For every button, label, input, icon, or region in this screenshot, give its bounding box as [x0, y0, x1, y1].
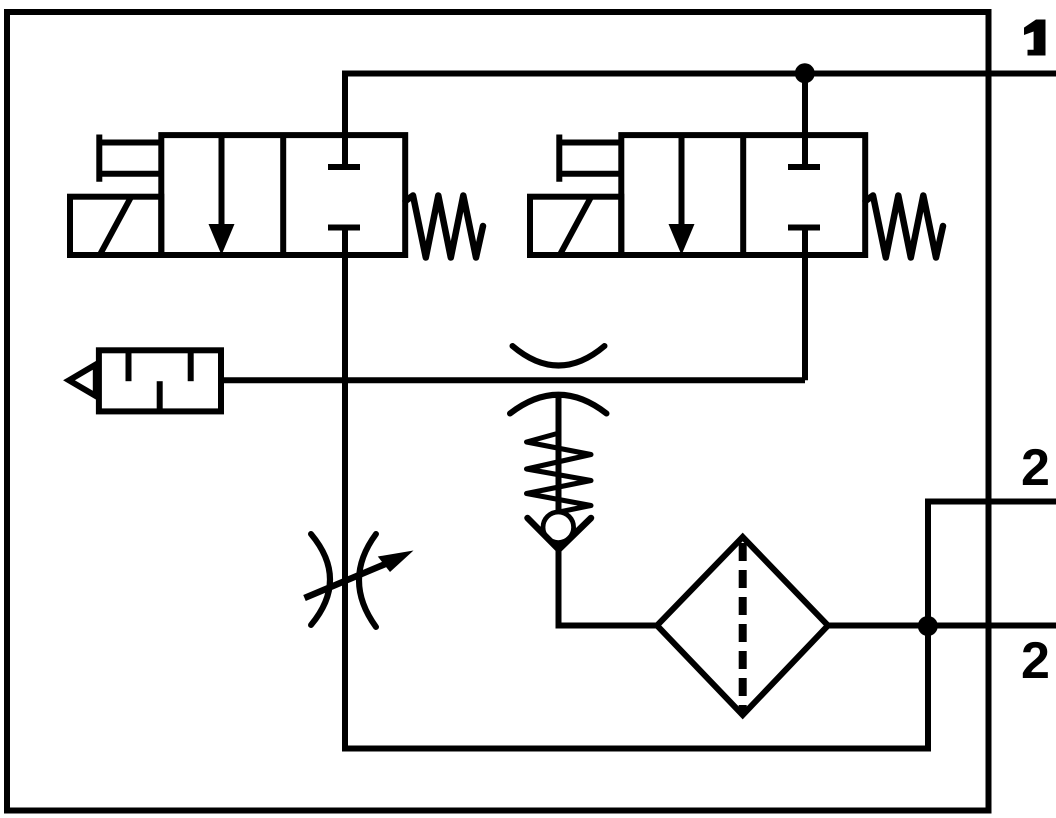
svg-text:2: 2: [1021, 632, 1050, 690]
svg-text:2: 2: [1021, 439, 1050, 497]
